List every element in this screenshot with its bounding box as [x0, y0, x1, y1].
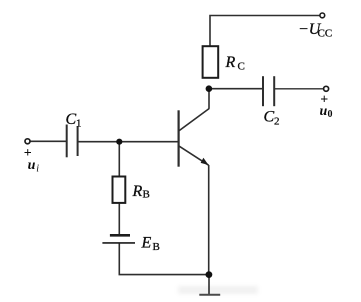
battery EB plates — [102, 235, 135, 243]
svg-text:i: i — [36, 164, 39, 175]
transistor Q1 emitter arrowhead — [201, 158, 209, 165]
svg-text:CC: CC — [318, 28, 333, 40]
node E junction — [206, 271, 213, 278]
svg-text:u: u — [320, 104, 328, 119]
node B junction — [116, 139, 122, 145]
terminal u_i input — [25, 139, 30, 144]
wire node B down to RB — [118, 142, 120, 177]
terminal u_0 output — [324, 86, 329, 91]
wire C2 to output terminal — [275, 88, 324, 90]
capacitor C2 plates — [263, 76, 274, 106]
wire collector diagonal — [179, 109, 209, 131]
wire bottom rail — [119, 274, 210, 276]
wire C1 to base (node B) — [78, 141, 178, 143]
wire EB to bottom rail — [118, 243, 120, 275]
svg-text:B: B — [153, 241, 160, 253]
ground — [199, 294, 220, 296]
svg-text:1: 1 — [76, 118, 82, 130]
wire top rail to -Ucc — [210, 16, 320, 47]
wire collector node to C2 — [209, 88, 262, 90]
terminal -Ucc — [320, 13, 325, 18]
ground (faint scan smudge) — [178, 286, 258, 294]
resistor RB — [113, 177, 126, 203]
node collector junction — [206, 85, 213, 92]
svg-text:2: 2 — [274, 116, 280, 128]
wire ground stub — [208, 275, 210, 295]
resistor RC — [203, 46, 219, 78]
wire RB to EB — [118, 203, 120, 235]
capacitor C1 plates — [67, 125, 78, 158]
svg-text:C: C — [238, 61, 245, 73]
svg-text:C: C — [66, 111, 77, 128]
svg-text:B: B — [143, 189, 150, 201]
svg-text:u: u — [28, 158, 36, 173]
wire input terminal to C1 — [30, 140, 66, 142]
svg-text:R: R — [225, 54, 236, 71]
transistor Q1 emitter with arrow — [179, 146, 208, 165]
svg-text:R: R — [132, 183, 143, 200]
svg-text:E: E — [141, 235, 152, 252]
transistor Q1 base bar — [178, 110, 180, 166]
wire collector vertical — [208, 89, 210, 109]
wire emitter vertical — [208, 165, 210, 275]
svg-text:0: 0 — [328, 109, 333, 120]
svg-text:C: C — [264, 109, 275, 126]
